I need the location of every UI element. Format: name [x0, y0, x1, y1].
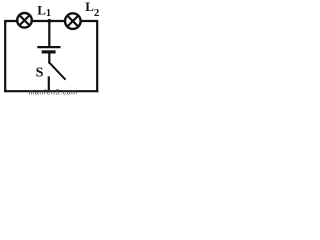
wire: bottom: [5, 90, 97, 92]
wire: right side: [82, 21, 98, 91]
switch S blade: [49, 63, 65, 80]
lamp L2: [65, 13, 81, 29]
svg-text:S: S: [36, 66, 44, 81]
wire: between lamps: [33, 20, 66, 22]
wire: top-left stub and left side: [5, 21, 16, 91]
wire: switch lower contact to bottom: [48, 78, 50, 92]
svg-text:manfen5.com: manfen5.com: [29, 90, 78, 96]
svg-text:L1: L1: [37, 2, 51, 19]
wire: middle branch upper: [48, 21, 50, 46]
svg-text:L2: L2: [85, 0, 100, 19]
wire: battery to switch: [48, 53, 50, 62]
lamp L1: [17, 13, 32, 28]
node junction dot: [47, 19, 51, 23]
battery positive plate: [38, 46, 59, 48]
battery negative plate: [43, 50, 54, 53]
